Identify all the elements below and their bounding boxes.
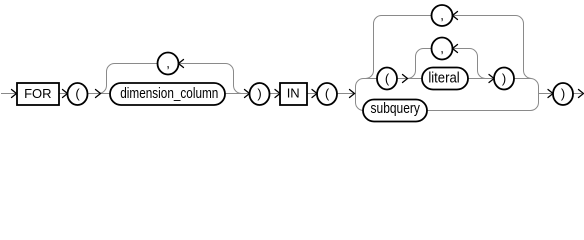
wire rparen3 to merge [514,78,531,80]
wire merge to rparen4 [539,93,553,95]
wire rparen1 to IN [270,93,280,95]
svg-text:IN: IN [287,86,300,101]
punct circle ( 3 [377,68,397,90]
punct circle ( 2 [317,83,337,105]
wire lparen3 to literal [397,78,422,80]
svg-text:,: , [440,8,444,23]
wire literal row start [364,78,378,80]
wire IN to lparen2 [307,93,317,95]
punct circle ( [68,83,88,105]
svg-text:,: , [166,56,170,71]
keyword box IN [280,83,307,105]
wire literal to rparen3 [468,78,494,80]
arrowhead on outer loop (left-pointing) [453,12,458,20]
arrowhead into lparen1 [63,90,68,98]
wire merge vertical [531,79,539,111]
wire subquery row to merge [427,110,531,112]
comma circle dim loop [158,53,179,75]
wire dim loop left [99,64,158,94]
keyword box FOR [17,83,59,105]
arrowhead after lparen1 [96,90,101,98]
arrowhead into rparen1 [245,90,250,98]
oval subquery [363,100,427,122]
arrowhead on inner loop (left-pointing) [453,45,458,53]
arrowhead before branch [350,90,355,98]
svg-text:FOR: FOR [24,86,51,101]
svg-text:subquery: subquery [371,100,421,117]
wire outer loop left [366,16,432,79]
wire FOR to lparen1 [59,93,67,95]
svg-text:,: , [440,41,444,56]
svg-text:): ) [561,86,565,101]
wire branch split vertical [356,79,364,111]
arrowhead into IN [275,90,280,98]
comma circle inner loop [432,38,453,60]
wire start [1,93,16,95]
wire rparen4 to end [573,93,582,95]
oval literal [422,68,468,90]
arrowhead on dim loop (left-pointing) [179,60,184,68]
svg-text:): ) [257,86,261,101]
wire inner loop right [453,49,486,79]
arrowhead into rparen3 [489,75,494,83]
svg-text:dimension_column: dimension_column [120,85,218,102]
punct circle ) 3 [494,68,514,90]
svg-text:(: ( [385,71,390,86]
svg-text:literal: literal [428,69,459,86]
arrowhead into rparen4 [548,90,553,98]
oval dimension_column [110,83,225,105]
comma circle outer loop [432,5,453,26]
wire lparen2 to branch [338,93,355,95]
arrowhead after lparen3 [403,75,408,83]
arrowhead into lparen2 [312,90,317,98]
svg-text:): ) [502,71,506,86]
wire dimension_column to rparen1 [225,93,249,95]
punct circle ) [250,83,270,105]
wire outer loop right [453,16,532,79]
svg-text:(: ( [325,86,330,101]
wire inner loop left [408,49,432,79]
arrowhead end [579,90,584,98]
arrowhead into FOR [12,90,17,98]
punct circle ) 4 [553,83,573,105]
wire dim loop right [179,64,242,94]
wire lparen1 to dimension_column [88,93,111,95]
svg-text:(: ( [75,86,80,101]
